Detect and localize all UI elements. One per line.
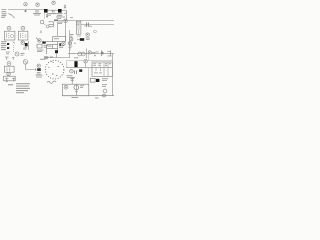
- component stack right of jack: [37, 64, 40, 67]
- V1 leads: [24, 41, 29, 50]
- node label circle IF1: [7, 26, 11, 30]
- cap above amp box: [71, 78, 74, 84]
- text under bus: [40, 58, 46, 61]
- box internals: [93, 63, 111, 73]
- ground symbols bottom left: [5, 78, 15, 81]
- AVC bus wire: [81, 24, 114, 26]
- wire between blocks: [48, 9, 58, 11]
- circle with cross: [46, 25, 49, 28]
- dashed gang line left: [13, 45, 15, 52]
- tick at wire end: [35, 68, 37, 70]
- capacitor on bus right: [102, 51, 103, 57]
- text near junction: [56, 13, 73, 24]
- power transformer black bar: [74, 61, 77, 67]
- value text under C2: [50, 12, 56, 15]
- left station text block: [1, 41, 7, 50]
- node circle on bottom wire: [103, 94, 106, 97]
- diode black: [79, 69, 82, 72]
- node label circle det: [62, 42, 65, 45]
- x mark: [40, 31, 42, 34]
- V1 lower marks: [23, 48, 27, 51]
- node label circles right pair: [70, 38, 73, 41]
- coupling marks below antenna terminals: [9, 14, 15, 19]
- speaker jack circle: [15, 52, 19, 56]
- dial lamp circle: [103, 89, 107, 93]
- hook resistor on descent: [64, 13, 67, 15]
- text inside sub box: [54, 37, 59, 40]
- twin circles on audio bus: [78, 52, 82, 56]
- dashed gang link under T1: [44, 14, 46, 19]
- resistor R1 vertical: [46, 14, 48, 18]
- antenna terminal text block: [2, 9, 7, 15]
- lead to black bar: [77, 39, 80, 41]
- diagonal lead mark: [36, 38, 39, 42]
- IF can 4: [4, 76, 16, 81]
- osc coil box: [76, 21, 81, 34]
- pilot lamp tees: [5, 57, 14, 60]
- IF1 internals: [7, 33, 10, 38]
- node label circle amp: [64, 85, 68, 89]
- wire bus to amp box: [88, 68, 90, 85]
- text under rectifier: [67, 75, 76, 78]
- IF transformer can 1: [4, 31, 15, 40]
- trimmer marks: [13, 42, 16, 44]
- T mark: [69, 48, 72, 51]
- line above box: [67, 59, 113, 61]
- wire bend down: [66, 10, 68, 20]
- marks below bottom wire: [95, 97, 99, 100]
- text right of jack: [6, 52, 25, 56]
- wire to the right of mixer: [62, 9, 67, 11]
- black blob tube V1: [25, 43, 28, 46]
- value text under L1: [33, 13, 41, 15]
- text in amp box: [80, 85, 84, 88]
- rectifier circle: [70, 69, 74, 73]
- audio bus wire: [68, 53, 114, 55]
- text below amp box: [72, 96, 79, 99]
- filter cap plus: [75, 71, 77, 75]
- node label circle tuner: [40, 20, 44, 24]
- right rail wire: [112, 54, 114, 96]
- vertical wire right rail: [69, 30, 71, 58]
- vertical through bus: [86, 49, 88, 59]
- black marks near det: [59, 43, 61, 45]
- wire top antenna line: [8, 9, 44, 11]
- V2 box: [37, 44, 42, 48]
- capacitor on AVC bus: [87, 23, 89, 28]
- fuse black square: [96, 79, 99, 82]
- capacitor C2: [52, 10, 54, 12]
- IF can 3: [4, 66, 14, 72]
- IF2 internals: [20, 33, 23, 38]
- coil L1 on line: [36, 10, 38, 13]
- black marks V2 grid: [42, 41, 45, 43]
- rotary switch dashed circle: [45, 60, 64, 79]
- marks right of label: [69, 42, 96, 59]
- tube V3: [74, 85, 79, 90]
- text right of fuse: [102, 78, 108, 87]
- text smudge under bus: [76, 23, 92, 37]
- node label circle IF2: [21, 26, 25, 30]
- capacitor C1 on antenna line: [24, 10, 27, 13]
- resistor in amp box: [75, 92, 78, 96]
- left edge wire of supply section: [66, 60, 68, 67]
- V2 value text: [37, 45, 48, 52]
- vertical wire osc side: [65, 21, 67, 42]
- node label circle B1: [52, 1, 55, 4]
- wire drop to box: [88, 54, 90, 60]
- node label circle can4: [7, 72, 10, 75]
- node label circle right: [86, 33, 89, 36]
- text above switch: [44, 56, 53, 59]
- B+ bus wire: [54, 19, 114, 21]
- switch inner marks: [48, 62, 54, 69]
- node label circle on bus: [88, 51, 91, 54]
- tuner internal marks: [48, 45, 64, 47]
- tuning coil L2: [49, 22, 54, 27]
- phono jack circle: [23, 60, 28, 65]
- node label circle V2: [38, 39, 41, 42]
- transformer block T1 (black): [44, 9, 48, 13]
- output transformer box: [92, 62, 113, 77]
- note label: [8, 83, 30, 93]
- handwritten squiggle: [47, 81, 56, 83]
- supply bus wire: [66, 67, 113, 69]
- black blob volume: [55, 50, 58, 53]
- junction blob: [54, 20, 58, 22]
- bottom chassis wire: [62, 95, 114, 97]
- amp section box: [62, 84, 88, 96]
- node label circle V1: [21, 41, 24, 44]
- node label circle A2: [36, 3, 39, 6]
- bus wire lower left: [44, 57, 70, 59]
- resistor end right: [110, 51, 112, 57]
- small circle under AVC bus: [94, 30, 97, 33]
- node label circle rect: [84, 60, 87, 63]
- fuse block outline: [90, 78, 95, 82]
- black bar resistor: [80, 38, 84, 41]
- text under left line: [1, 16, 6, 18]
- value text right of gang link: [47, 13, 57, 15]
- vertical wire to detector: [57, 22, 59, 36]
- node label circle on B+ bus: [64, 19, 67, 22]
- node label circle A1: [24, 2, 27, 5]
- osc coil windings: [77, 23, 80, 34]
- tuner main box: [44, 42, 58, 55]
- node label circle can3: [7, 62, 11, 66]
- mixer block (black): [58, 9, 62, 13]
- black pad marks: [7, 43, 9, 45]
- sub box padder: [53, 37, 66, 42]
- box dividers: [104, 62, 108, 77]
- trimmer cap above bend: [64, 5, 66, 9]
- IF transformer can 2: [18, 31, 28, 40]
- wire from blob down: [56, 53, 58, 58]
